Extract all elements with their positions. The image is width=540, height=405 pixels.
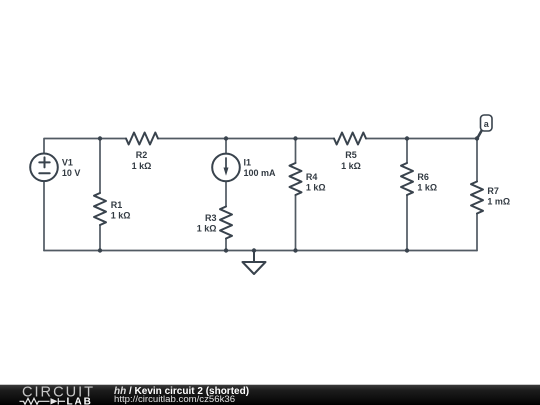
wire top rail: R2 right to R5 left bbox=[158, 138, 334, 140]
svg-text:100 mA: 100 mA bbox=[244, 168, 277, 178]
junction node a at R7 bbox=[475, 136, 479, 140]
svg-text:1 kΩ: 1 kΩ bbox=[306, 183, 326, 193]
junction bottom rail at R4 bbox=[293, 248, 297, 252]
CircuitLab logo bbox=[0, 385, 100, 405]
wire R3 bottom bbox=[225, 239, 227, 251]
wire R7 branch bottom bbox=[476, 214, 478, 251]
wire R6 branch top bbox=[406, 139, 408, 164]
wire I1 to R3 bbox=[225, 181, 227, 206]
node a flag bbox=[477, 115, 492, 139]
R3 value labels bbox=[197, 213, 217, 233]
junction bottom rail at R1 bbox=[98, 248, 102, 252]
svg-text:10 V: 10 V bbox=[62, 168, 81, 178]
wire R4 branch bottom bbox=[295, 195, 297, 251]
resistor R4 bbox=[290, 163, 302, 195]
resistor R2 bbox=[126, 133, 158, 145]
wire R4 branch top bbox=[295, 139, 297, 164]
svg-text:R1: R1 bbox=[111, 200, 123, 210]
resistor R3 bbox=[220, 207, 232, 239]
svg-text:R6: R6 bbox=[417, 172, 429, 182]
junction bottom rail at ground bbox=[252, 248, 256, 252]
footer bar bbox=[0, 384, 540, 405]
voltage source V1 bbox=[30, 154, 58, 182]
R4 value labels bbox=[306, 172, 326, 192]
R5 value labels bbox=[341, 150, 361, 171]
V1 value labels bbox=[62, 157, 81, 178]
svg-text:R7: R7 bbox=[487, 186, 499, 196]
svg-text:I1: I1 bbox=[244, 157, 252, 167]
R2 value labels bbox=[132, 150, 152, 171]
footer title text bbox=[114, 386, 249, 404]
svg-text:1 kΩ: 1 kΩ bbox=[132, 161, 152, 171]
wire R1 branch bottom bbox=[99, 225, 101, 251]
resistor R1 bbox=[94, 193, 106, 225]
R7 value labels bbox=[487, 186, 510, 206]
wire bottom rail bbox=[44, 250, 477, 252]
wire I1 branch top bbox=[225, 139, 227, 154]
wire R7 branch top bbox=[476, 139, 478, 182]
svg-text:R4: R4 bbox=[306, 172, 318, 182]
R6 value labels bbox=[417, 172, 437, 192]
svg-text:1 kΩ: 1 kΩ bbox=[111, 210, 131, 220]
resistor R6 bbox=[401, 163, 413, 195]
wire left branch V1 bottom bbox=[43, 181, 45, 250]
resistor R5 bbox=[334, 133, 366, 145]
wire R1 branch top bbox=[99, 139, 101, 194]
svg-text:1 mΩ: 1 mΩ bbox=[487, 197, 510, 207]
svg-text:V1: V1 bbox=[62, 157, 73, 167]
wire top rail: R5 right to node a corner bbox=[366, 138, 477, 140]
I1 value labels bbox=[244, 157, 277, 178]
ground bbox=[243, 251, 266, 275]
I1 arrow head bbox=[224, 168, 229, 176]
junction top rail at R4 bbox=[293, 136, 297, 140]
resistor R7 bbox=[471, 182, 483, 214]
junction top rail at R1 bbox=[98, 136, 102, 140]
R1 value labels bbox=[111, 200, 131, 221]
wire top rail: V1 top to R2 left bbox=[44, 139, 126, 154]
svg-text:R3: R3 bbox=[205, 213, 217, 223]
svg-text:R2: R2 bbox=[136, 150, 148, 160]
svg-text:1 kΩ: 1 kΩ bbox=[197, 223, 217, 233]
wire R6 branch bottom bbox=[406, 195, 408, 251]
junction top rail at I1 bbox=[224, 136, 228, 140]
svg-text:LAB: LAB bbox=[67, 396, 93, 405]
svg-text:1 kΩ: 1 kΩ bbox=[417, 183, 437, 193]
junction bottom rail at R6 bbox=[405, 248, 409, 252]
current source I1 bbox=[212, 154, 240, 182]
svg-text:1 kΩ: 1 kΩ bbox=[341, 161, 361, 171]
junction bottom rail at R3 bbox=[224, 248, 228, 252]
junction top rail at R6 bbox=[405, 136, 409, 140]
svg-text:R5: R5 bbox=[345, 150, 357, 160]
